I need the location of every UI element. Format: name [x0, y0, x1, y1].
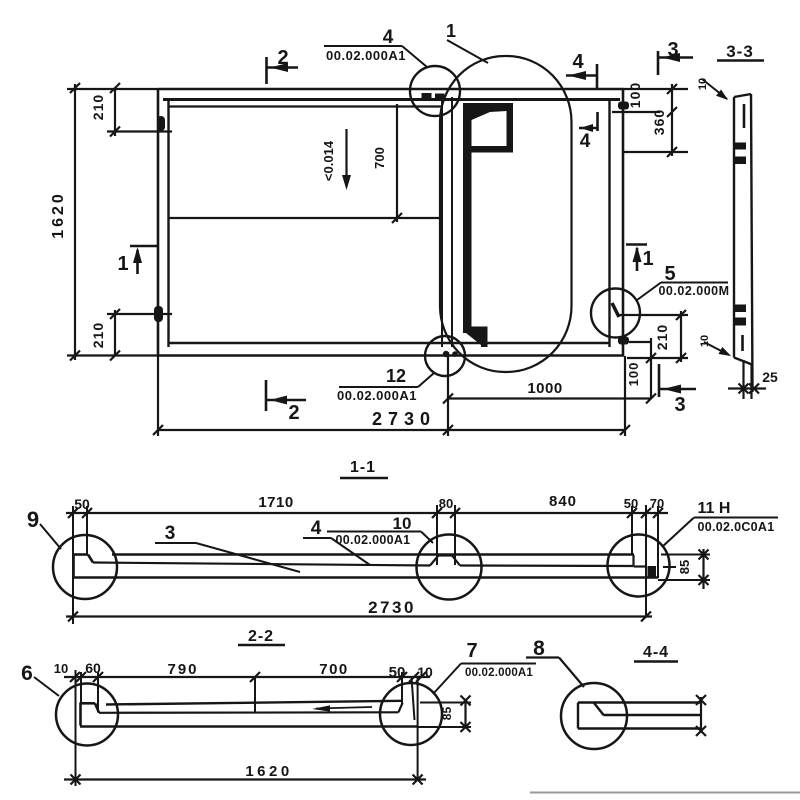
1-1 beam bottom edge — [73, 576, 658, 578]
svg-text:2730: 2730 — [372, 409, 436, 429]
3-3 inner dash top — [743, 104, 746, 128]
1-1 right extension lines — [658, 555, 710, 581]
detail circle 5 — [591, 289, 640, 338]
compartment bottom step detail — [463, 327, 488, 348]
detail circle 10 — [417, 535, 482, 600]
svg-text:1: 1 — [642, 248, 653, 270]
dimension 360 top right — [624, 147, 688, 157]
2-2 beam bottom edge — [80, 725, 418, 727]
svg-text:1: 1 — [117, 253, 128, 275]
3-3 bottom stub — [744, 360, 752, 399]
svg-text:60: 60 — [85, 660, 101, 676]
svg-text:12: 12 — [386, 366, 406, 386]
svg-text:00.02.000А1: 00.02.000А1 — [465, 667, 533, 679]
1-1 beam left end block — [74, 554, 94, 578]
divider wall right line — [451, 97, 453, 347]
2-2 beam middle line — [99, 711, 398, 714]
plan middle room line — [168, 217, 442, 219]
dimension 1620 left — [67, 83, 158, 361]
dimension 210 bottom left — [107, 309, 172, 361]
svg-text:00.02.000А1: 00.02.000А1 — [326, 48, 406, 63]
svg-text:4-4: 4-4 — [643, 644, 669, 661]
2-2 slope arrow — [312, 705, 372, 711]
2-2 bottom dimension 1620 — [64, 775, 426, 785]
4-4 slab lines — [578, 703, 701, 729]
svg-text:1-1: 1-1 — [350, 459, 376, 476]
svg-text:2-2: 2-2 — [248, 628, 274, 645]
2-2 top dimension line — [64, 672, 430, 682]
svg-text:00.02.000А1: 00.02.000А1 — [337, 388, 417, 403]
svg-text:700: 700 — [319, 661, 349, 678]
svg-text:80: 80 — [439, 496, 453, 511]
svg-text:10: 10 — [417, 664, 433, 680]
dimension 100 bottom right — [629, 338, 656, 404]
dimension 1000 — [443, 394, 651, 404]
svg-text:1710: 1710 — [258, 494, 293, 511]
2-2 right end 85 extension lines — [418, 703, 471, 728]
svg-text:7: 7 — [466, 640, 477, 662]
2-2 right chamfer — [398, 703, 402, 713]
plan outer bottom edge — [158, 354, 624, 357]
dimension 210 top left — [107, 83, 172, 137]
svg-text:10: 10 — [393, 514, 412, 533]
svg-text:1000: 1000 — [527, 380, 562, 397]
svg-text:85: 85 — [440, 707, 454, 721]
svg-text:25: 25 — [762, 369, 778, 385]
svg-text:00.02.0С0А1: 00.02.0С0А1 — [698, 520, 775, 534]
svg-text:700: 700 — [372, 147, 387, 169]
plan outer left edge — [157, 88, 160, 356]
svg-text:4: 4 — [580, 131, 591, 152]
svg-text:210: 210 — [90, 322, 106, 348]
compartment corner box detail — [463, 103, 513, 153]
3-3 bottom left arrow 10 — [704, 342, 731, 356]
svg-text:360: 360 — [651, 109, 667, 135]
dimension 85 right of 1-1 — [699, 549, 709, 589]
svg-text:210: 210 — [654, 324, 670, 350]
svg-text:50: 50 — [74, 496, 90, 512]
lifting loop left top — [157, 116, 165, 131]
detail circle 6 — [56, 684, 118, 746]
svg-text:10: 10 — [54, 661, 68, 676]
joint blobs inside circle 12 — [443, 351, 449, 357]
joint mark inside circle 5 — [612, 303, 619, 317]
plan room top line — [168, 105, 442, 107]
dimension 85 right of 2-2 — [461, 696, 471, 733]
section mark 1 left — [130, 246, 157, 274]
svg-text:3: 3 — [165, 523, 176, 544]
detail circle 12 — [425, 336, 465, 376]
section mark 3 top right — [658, 51, 693, 75]
1-1 beam middle line — [93, 563, 430, 566]
3-3 lower joint detail — [734, 305, 746, 326]
detail 1 capsule outline — [440, 56, 572, 372]
svg-text:11 Н: 11 Н — [698, 500, 731, 517]
svg-text:790: 790 — [167, 661, 198, 678]
lifting loop left bottom — [154, 306, 163, 322]
plan outer top edge — [158, 88, 624, 91]
svg-text:85: 85 — [677, 560, 692, 574]
section mark 4 top — [566, 64, 597, 88]
svg-text:9: 9 — [27, 507, 39, 532]
detail circle 11 — [608, 535, 670, 597]
plan outer right edge — [622, 88, 625, 356]
dimension 2730 plan — [153, 352, 630, 436]
divider wall left line — [441, 97, 443, 347]
section mark 2 top — [267, 57, 299, 84]
svg-text:10: 10 — [699, 335, 711, 347]
svg-text:840: 840 — [549, 493, 577, 510]
svg-text:1620: 1620 — [245, 763, 292, 780]
1-1 joint at detail 10 — [430, 556, 460, 566]
3-3 upper joint detail — [735, 143, 746, 165]
lifting loop right top — [618, 102, 629, 110]
slope mark 0.014 — [342, 129, 351, 190]
svg-text:1620: 1620 — [50, 191, 67, 239]
1-1 bottom dimension 2730 — [66, 612, 652, 622]
section mark 2 bottom — [266, 380, 306, 411]
svg-text:2: 2 — [288, 402, 299, 424]
dimension 25 — [728, 384, 766, 394]
svg-text:3-3: 3-3 — [726, 42, 754, 61]
1-1 joint at detail 11 — [634, 555, 647, 567]
1-1 beam top edge — [112, 553, 634, 555]
2-2 beam left end block — [81, 703, 100, 726]
svg-text:4: 4 — [311, 518, 322, 539]
1-1 top dimension line — [66, 508, 668, 518]
svg-text:6: 6 — [21, 662, 33, 685]
dimension 210 bottom right — [619, 310, 688, 363]
3-3 inner dash bottom — [741, 335, 744, 351]
section mark 4 inner — [579, 112, 598, 132]
svg-text:00.02.000А1: 00.02.000А1 — [336, 533, 411, 547]
section mark 1 right — [626, 245, 647, 272]
svg-text:<0.014: <0.014 — [321, 140, 336, 181]
svg-text:10: 10 — [697, 78, 709, 90]
2-2 extension lines — [76, 670, 418, 786]
4-4 right end — [696, 695, 706, 736]
section mark 3 bottom right — [659, 364, 696, 397]
3-3 top left arrow 10 — [702, 79, 728, 100]
1-1 beam middle line right — [460, 564, 633, 567]
scan artifact line bottom right — [530, 792, 800, 794]
svg-text:210: 210 — [90, 94, 106, 120]
2-2 beam top edge — [106, 701, 403, 705]
svg-text:3: 3 — [667, 39, 678, 61]
svg-text:4: 4 — [383, 27, 394, 48]
detail circle 4 — [410, 66, 460, 116]
plan inner bottom edge — [168, 342, 609, 345]
3-3 column outline — [734, 94, 753, 392]
detail circle 9 — [53, 535, 117, 599]
svg-text:00.02.000М: 00.02.000М — [658, 284, 729, 298]
detail circle 7 — [380, 683, 442, 745]
svg-text:50: 50 — [389, 664, 406, 681]
compartment thick left wall — [463, 103, 472, 333]
detail circle 4 contents — [422, 93, 445, 100]
svg-text:70: 70 — [650, 496, 664, 511]
svg-text:2: 2 — [277, 47, 288, 69]
svg-text:50: 50 — [624, 496, 638, 511]
dimension 700 room — [392, 104, 402, 223]
1-1 extension lines — [73, 505, 658, 624]
svg-text:100: 100 — [626, 362, 641, 387]
svg-text:2730: 2730 — [368, 598, 416, 617]
svg-text:1: 1 — [446, 21, 456, 41]
plan inner right edge — [608, 99, 610, 347]
svg-text:100: 100 — [627, 82, 643, 108]
plan second top line — [163, 98, 620, 101]
svg-text:3: 3 — [674, 394, 685, 416]
detail circle 8 — [561, 683, 627, 749]
dimension 100 top right — [612, 84, 688, 156]
svg-text:4: 4 — [572, 51, 584, 73]
plan inner left edge — [167, 99, 169, 347]
lifting loop right bottom — [618, 337, 629, 345]
